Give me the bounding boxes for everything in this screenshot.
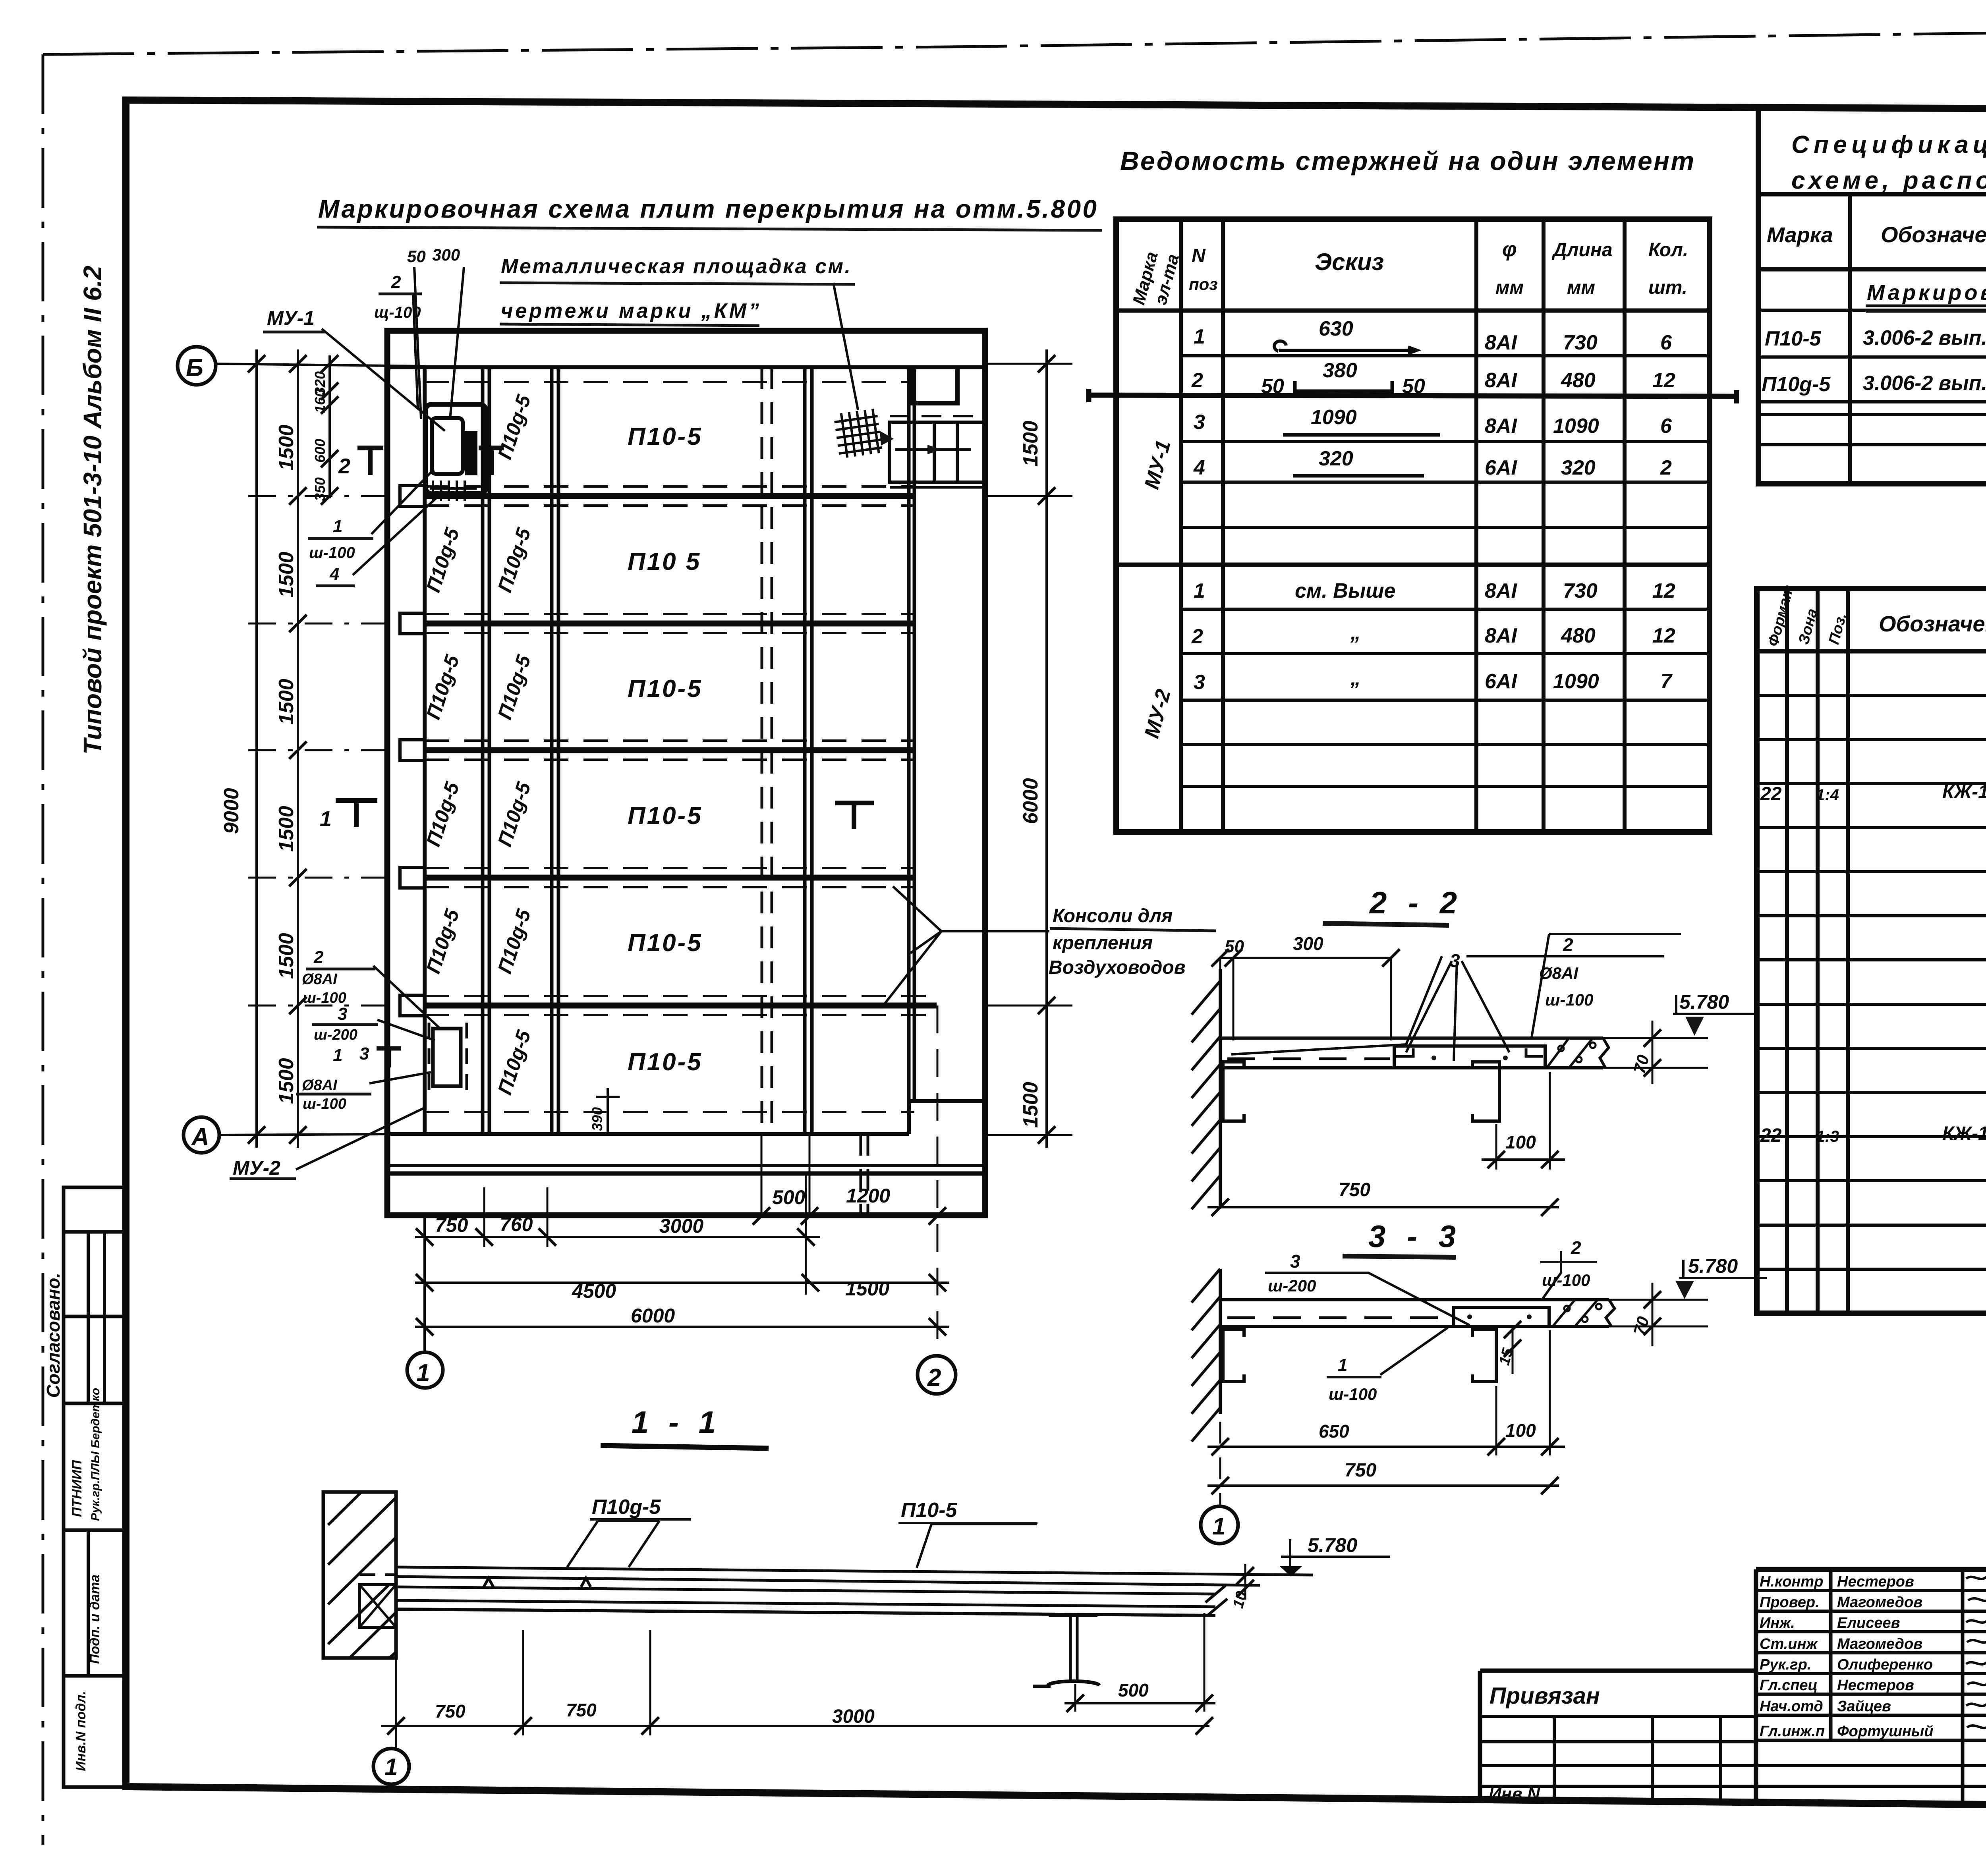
left mini dims [312,371,328,501]
wall pilaster tabs [400,486,425,1016]
svg-text:МУ-1: МУ-1 [1140,438,1175,492]
svg-text:П10-5: П10-5 [1765,327,1822,350]
svg-text:50: 50 [407,247,426,266]
svg-text:Маркировочная схема плит покры: Маркировочная схема плит покрытия [1867,281,1986,305]
svg-text:5.780: 5.780 [1688,1255,1738,1277]
svg-text:1090: 1090 [1311,406,1357,429]
privyazan block [1480,1671,1756,1803]
svg-text:Магомедов: Магомедов [1837,1594,1922,1611]
svg-text:мм: мм [1567,277,1595,298]
section mark 3 [377,1048,401,1067]
svg-text:П10g-5: П10g-5 [493,1027,535,1098]
svg-text:Ø8АI: Ø8АI [1539,964,1578,982]
svg-text:2: 2 [313,948,324,967]
SECTION: titleblock [1480,1569,1986,1803]
dim 15 [1512,1326,1514,1374]
svg-text:1090: 1090 [1553,670,1599,693]
svg-text:1500: 1500 [1019,421,1042,467]
svg-text:Типовой проект 501-3-10 Альбом: Типовой проект 501-3-10 Альбом II 6.2 [78,266,107,755]
svg-text:320: 320 [1561,456,1596,479]
svg-text:Нестеров: Нестеров [1837,1677,1914,1694]
SECTION: table1 texts [1120,146,1694,741]
left wall inner [423,367,427,1134]
svg-text:Инв.N подл.: Инв.N подл. [73,1691,89,1771]
svg-text:1 - 1: 1 - 1 [632,1405,721,1440]
svg-text:1:3: 1:3 [1816,1128,1839,1145]
svg-text:6АI: 6АI [1485,456,1517,479]
svg-text:Подп. и дата: Подп. и дата [87,1575,102,1664]
leaders P10g-5 [567,1521,659,1567]
svg-text:1: 1 [1194,579,1205,602]
svg-text:380: 380 [1323,359,1357,382]
svg-text:50: 50 [1261,375,1284,398]
svg-text:630: 630 [1319,317,1353,340]
svg-text:1500: 1500 [275,806,298,852]
svg-text:160: 160 [312,389,328,413]
underlines [230,227,1216,1179]
SECTION: table3 texts [1760,583,1986,1291]
circle 1 [373,1749,409,1784]
svg-text:Фортушный: Фортушный [1837,1723,1933,1740]
axis 1 vertical [423,1216,426,1352]
svg-text:8АI: 8АI [1485,624,1517,647]
svg-text:1500: 1500 [845,1278,889,1300]
svg-text:Обозначение: Обозначение [1879,611,1986,636]
svg-text:ПТНИИП: ПТНИИП [70,1459,85,1517]
svg-text:Формат: Формат [1765,583,1797,648]
circle 2 [918,1356,956,1394]
left dim line 1500s [297,349,299,1148]
svg-text:Магомедов: Магомедов [1837,1636,1922,1652]
bottom dim row A ticks [753,1207,946,1225]
signatures scribbles [1966,1573,1986,1728]
svg-text:4500: 4500 [572,1280,616,1302]
dim 10 right [1244,1564,1246,1600]
mid bracket [1472,1062,1499,1121]
svg-text:схеме, расположенной на листе.: схеме, расположенной на листе. [1791,167,1986,194]
bottom dim row B [415,1236,820,1238]
svg-text:1: 1 [320,807,332,831]
svg-text:50: 50 [1402,375,1425,398]
svg-text:Нач.отд: Нач.отд [1760,1698,1823,1715]
wall hatch [1219,1269,1222,1414]
svg-text:3: 3 [1194,411,1205,434]
brackets [1223,1330,1244,1382]
dim 750 [1219,1072,1221,1217]
svg-text:2: 2 [927,1364,941,1392]
svg-text:1090: 1090 [1553,415,1599,438]
SECTION: section 2-2 [1192,934,1758,1217]
svg-text:12: 12 [1652,369,1675,392]
svg-text:10: 10 [1230,1590,1250,1610]
svg-text:5.780: 5.780 [1308,1534,1357,1556]
svg-text:500: 500 [1118,1680,1149,1700]
svg-text:Обозначение: Обозначение [1881,222,1986,247]
section mark 2-2 right [479,448,504,475]
bottom dim row D [415,1326,949,1328]
leader 1/sh-100 [371,469,434,534]
svg-text:Согласовано.: Согласовано. [43,1273,64,1398]
svg-text:мм: мм [1495,277,1524,298]
bottom dims [435,1185,890,1327]
svg-text:П10g-5: П10g-5 [422,525,464,595]
left bracket [1223,1062,1244,1121]
svg-text:2: 2 [1191,625,1203,648]
svg-text:650: 650 [1319,1421,1349,1442]
SECTION: section 1-1 [323,1446,1390,1784]
svg-text:ш-100: ш-100 [303,1096,346,1112]
MU-2 detail [429,1023,467,1092]
big slant leader from 3/sh-200 [1265,1273,1470,1325]
bottom-left rebar labels [233,948,369,1179]
svg-text:Ø8АI: Ø8АI [302,1077,338,1094]
circle 1 [407,1352,443,1388]
svg-text:3: 3 [1290,1251,1300,1272]
svg-text:П10 5: П10 5 [628,548,701,575]
svg-text:6АI: 6АI [1485,670,1517,693]
dim 750 [1219,1422,1221,1505]
svg-text:ш-200: ш-200 [314,1027,357,1043]
sketch row1: bar 630 with hooks [1274,341,1417,353]
svg-text:Маркировочная схема плит перек: Маркировочная схема плит перекрытия на о… [318,195,1097,223]
svg-text:„: „ [1350,621,1361,644]
level 5.780 [1673,995,1758,1014]
svg-text:1: 1 [1212,1513,1225,1540]
SECTION: titleblock texts [1489,1573,1986,1809]
right dims [1019,421,1042,1128]
svg-text:П10g-5: П10g-5 [592,1496,661,1519]
svg-text:φ: φ [1502,238,1517,261]
circle A [184,1117,219,1153]
svg-text:Металлическая площадка см.: Металлическая площадка см. [501,255,850,278]
svg-text:П10g-5: П10g-5 [422,779,464,849]
dim 390 tick [596,1088,620,1134]
top wall inner line [387,365,985,369]
bottom wall inner with niche [387,1101,984,1134]
svg-text:22: 22 [1760,784,1782,805]
svg-text:П10-5: П10-5 [628,929,703,957]
svg-text:50: 50 [1225,937,1244,956]
svg-text:750: 750 [566,1700,597,1720]
svg-text:8АI: 8АI [1485,331,1517,354]
SECTION: plan [296,267,1049,1215]
svg-text:Елисеев: Елисеев [1837,1615,1900,1631]
sketch row4 bar [1293,474,1424,478]
wall [323,1492,396,1658]
svg-text:1: 1 [333,1046,342,1065]
P10g-5 labels strip2 [493,392,535,1098]
svg-text:1500: 1500 [1019,1082,1042,1128]
MU-1 monolithic detail [425,404,486,501]
svg-text:300: 300 [432,245,460,264]
svg-text:А: А [191,1123,209,1151]
svg-text:750: 750 [435,1701,466,1722]
trough [1394,1046,1545,1068]
svg-text:480: 480 [1561,369,1596,392]
svg-text:300: 300 [1293,933,1323,954]
svg-text:Нестеров: Нестеров [1837,1573,1914,1590]
svg-text:П10g-5: П10g-5 [422,652,464,722]
svg-text:9000: 9000 [220,788,243,834]
svg-text:Гл.спец: Гл.спец [1760,1677,1818,1694]
svg-text:Ст.инж: Ст.инж [1760,1636,1818,1652]
P10-5 labels [628,423,703,1076]
svg-text:750: 750 [1339,1179,1370,1200]
svg-text:12: 12 [1652,624,1675,647]
crosshatch square [833,408,883,459]
svg-text:МУ-2: МУ-2 [1140,687,1175,741]
svg-text:3: 3 [1194,671,1205,694]
svg-text:1500: 1500 [275,1058,298,1104]
svg-text:поз: поз [1189,275,1218,293]
slab row bands [425,382,937,1112]
crosshatch arrow [880,431,894,446]
SECTION: leftstamp [64,1187,126,1787]
svg-text:П10g-5: П10g-5 [493,525,535,595]
SECTION: section 3-3 [1192,1251,1767,1544]
svg-text:4: 4 [329,564,339,584]
svg-text:3000: 3000 [659,1215,703,1237]
SECTION: plan-texts [186,131,1986,1392]
svg-text:крепления: крепления [1053,932,1153,953]
svg-text:2: 2 [338,454,350,478]
metal platform leader [833,283,858,410]
svg-text:1500: 1500 [275,933,298,979]
level 5.780 [1281,1539,1390,1576]
svg-text:П10g-5: П10g-5 [493,906,535,977]
leader 4 [353,491,444,575]
leader 1/sh-100 [1380,1328,1448,1375]
SECTION: table1 vedomost [1089,219,1737,832]
svg-text:шт.: шт. [1648,277,1687,298]
svg-text:6000: 6000 [1019,778,1042,824]
SECTION: table3 [1757,589,1986,1313]
svg-text:Ведомость стержней на один эле: Ведомость стержней на один элемент [1120,146,1694,176]
svg-text:750: 750 [1345,1460,1376,1481]
svg-text:480: 480 [1561,624,1596,647]
svg-text:6: 6 [1660,331,1672,354]
dim 100 [1496,1072,1550,1170]
svg-text:ш-100: ш-100 [1545,990,1593,1009]
svg-text:1500: 1500 [275,552,298,598]
svg-text:П10g-5: П10g-5 [493,652,535,722]
SECTION: sections texts [384,885,1738,1780]
svg-text:Консоли для: Консоли для [1053,905,1173,926]
right dim extensions [985,364,1072,1135]
dim 70 right [1603,1021,1708,1084]
svg-text:730: 730 [1563,331,1598,354]
svg-text:ш-200: ш-200 [1268,1276,1316,1295]
svg-text:320: 320 [1319,447,1353,470]
dim 70 [1609,1283,1708,1346]
svg-text:Рук.гр.: Рук.гр. [1760,1656,1811,1673]
svg-text:730: 730 [1563,579,1598,602]
left mini dim line [328,355,331,498]
dim 650 / 100 [1496,1330,1550,1455]
bottom dim [396,1630,650,1749]
dim 50-300 [1220,957,1391,959]
svg-text:3: 3 [338,1004,347,1024]
circle B [178,347,216,385]
svg-text:3.006-2 вып.II-2: 3.006-2 вып.II-2 [1863,372,1986,395]
left dims 1500 [220,425,298,1104]
svg-text:П10-5: П10-5 [628,802,703,830]
outer dash-dot border top [43,25,1986,54]
svg-text:Эскиз: Эскиз [1315,249,1384,275]
concrete end hatch [1547,1038,1593,1068]
slab lines [396,1567,1313,1575]
axis A line [219,1134,387,1135]
svg-text:750: 750 [435,1214,468,1236]
svg-text:Н.контр: Н.контр [1760,1573,1823,1590]
svg-text:3.006-2 вып.II-2: 3.006-2 вып.II-2 [1863,326,1986,349]
left dim ticks [248,355,338,1144]
sketch row2: bar 380 bracket [1295,381,1392,393]
svg-text:4: 4 [1193,456,1205,479]
svg-text:П10-5: П10-5 [628,1048,703,1076]
svg-text:5.780: 5.780 [1679,991,1729,1013]
svg-text:см. Выше: см. Выше [1295,579,1395,602]
svg-text:2: 2 [1563,934,1573,955]
weld marks [484,1578,493,1587]
svg-text:КЖ-12: КЖ-12 [1942,782,1986,803]
svg-text:N: N [1192,245,1206,266]
MU-1 leader [322,329,445,431]
stair box top right [890,416,985,487]
svg-text:щ-100: щ-100 [374,304,421,321]
svg-text:100: 100 [1505,1132,1536,1152]
P10g-5 labels strip1 [422,525,464,977]
section mark 1-1 right [835,803,874,829]
svg-text:Олиференко: Олиференко [1837,1656,1933,1673]
concrete end hatch [1553,1300,1598,1326]
svg-text:8АI: 8АI [1485,369,1517,392]
svg-text:ш-100: ш-100 [303,990,346,1006]
svg-text:Кол.: Кол. [1648,239,1688,261]
svg-text:1: 1 [416,1359,430,1387]
svg-text:Марка: Марка [1767,223,1833,247]
svg-text:Длина: Длина [1551,239,1613,261]
SECTION: table2 texts [1762,131,1986,396]
svg-text:8АI: 8АI [1485,415,1517,438]
svg-text:П10g-5: П10g-5 [493,392,535,462]
svg-text:7: 7 [1660,670,1673,693]
svg-text:1200: 1200 [846,1185,890,1207]
svg-text:2: 2 [1660,456,1672,479]
stair arrow [927,445,941,454]
svg-text:ш-100: ш-100 [1542,1271,1590,1289]
slab 3-3 [1220,1298,1609,1301]
svg-text:6: 6 [1660,415,1672,438]
svg-text:1: 1 [384,1754,398,1780]
svg-text:1500: 1500 [275,425,298,471]
I-beam [1049,1614,1097,1617]
svg-text:70: 70 [1630,1314,1652,1337]
svg-text:ш-100: ш-100 [1329,1385,1377,1403]
bottom dim row C [415,1282,949,1284]
svg-text:Воздуховодов: Воздуховодов [1049,957,1186,978]
svg-text:Б: Б [186,354,203,382]
svg-text:3 - 3: 3 - 3 [1368,1219,1462,1254]
svg-text:чертежи марки „КМ”: чертежи марки „КМ” [501,299,759,322]
svg-text:Ø8АI: Ø8АI [302,971,338,988]
svg-text:П10-5: П10-5 [901,1499,958,1522]
building outer walls [387,331,985,1215]
svg-text:3: 3 [359,1044,369,1063]
dim 500 [1075,1613,1204,1712]
svg-text:1: 1 [1194,325,1205,348]
slab 2-2 [1220,1036,1603,1040]
svg-text:1500: 1500 [275,679,298,725]
svg-text:2: 2 [1191,369,1203,392]
svg-text:П10g-5: П10g-5 [1762,373,1831,396]
svg-text:„: „ [1350,667,1361,690]
svg-text:2: 2 [391,272,401,292]
right dim line [1045,349,1048,1148]
svg-text:22: 22 [1760,1125,1782,1146]
trough 3-3 [1454,1307,1549,1326]
svg-text:500: 500 [772,1186,806,1208]
svg-text:600: 600 [312,439,328,463]
vertical slab strips [483,367,812,1134]
svg-text:6000: 6000 [631,1305,675,1327]
circle 1 [1201,1506,1238,1544]
leaders bottom-left labels [369,966,440,1083]
top wall niche [911,367,957,403]
svg-text:Привязан: Привязан [1489,1683,1600,1709]
roles/names/signature block [1756,1567,1986,1572]
svg-text:Провер.: Провер. [1760,1594,1820,1611]
level 5.780 [1679,1260,1767,1278]
leader 2/sh-100 [1543,1251,1561,1299]
svg-text:П10-5: П10-5 [628,675,703,703]
svg-text:1:4: 1:4 [1816,786,1839,804]
section mark 2-2 left [357,448,383,475]
left dim extension lines [248,496,400,1006]
leader 3 [1231,956,1509,1061]
svg-text:1: 1 [333,517,342,536]
svg-text:Рук.гр.ПЛЫ Бердетко: Рук.гр.ПЛЫ Бердетко [89,1388,102,1521]
svg-text:100: 100 [1505,1420,1536,1441]
svg-text:760: 760 [500,1213,533,1235]
svg-text:Спецификация элементов к марки: Спецификация элементов к маркировочной [1791,131,1986,158]
leader 2 [1532,934,1681,1037]
MU-2 leader [296,1107,426,1170]
svg-text:3000: 3000 [832,1706,875,1727]
svg-text:Инв.N: Инв.N [1489,1784,1540,1804]
axis B line [215,364,425,366]
bottom dim row A verticals [761,1136,809,1216]
svg-text:Зайцев: Зайцев [1837,1698,1891,1715]
svg-text:ш-100: ш-100 [309,544,355,562]
outer dash-dot border left [42,54,44,1845]
SECTION: plan-dims [178,347,1072,1394]
sketch row3 bar [1283,433,1440,437]
leader P10-5 [917,1524,1037,1568]
svg-text:2 - 2: 2 - 2 [1369,885,1463,920]
left dim line 9000 [255,349,258,1148]
svg-text:1: 1 [1338,1355,1347,1375]
konsoli leaders [881,886,1049,1008]
SECTION: table2 specification [1758,108,1986,484]
svg-text:3: 3 [1450,950,1460,971]
svg-text:Гл.инж.п: Гл.инж.п [1760,1723,1825,1740]
svg-text:П10g-5: П10g-5 [422,906,464,977]
monolith notch [359,1585,396,1627]
svg-text:390: 390 [589,1107,605,1131]
svg-text:8АI: 8АI [1485,579,1517,602]
svg-text:350: 350 [312,477,328,501]
